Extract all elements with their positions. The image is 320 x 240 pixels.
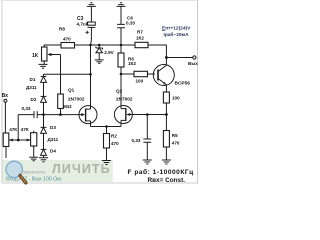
BCP56 base bar	[157, 70, 159, 81]
wire input cap to wiper junction	[17, 115, 19, 140]
wire M43 bottom	[60, 109, 62, 115]
ground under D4	[39, 158, 48, 162]
terminal Вх	[4, 99, 7, 102]
watermark band	[3, 160, 113, 182]
capacitor 0.33 feedback	[143, 115, 151, 161]
svg-text:2N7002: 2N7002	[116, 97, 133, 102]
svg-text:Q2: Q2	[116, 88, 123, 93]
pot 47K right arrow	[27, 139, 31, 142]
svg-text:Д311: Д311	[26, 85, 37, 90]
wire R6 top	[120, 45, 122, 53]
svg-text:R8: R8	[59, 27, 65, 32]
ground under cap	[143, 160, 152, 164]
svg-text:Д311: Д311	[48, 137, 59, 142]
diode D3	[41, 115, 47, 128]
node dot wiper junction	[17, 139, 20, 142]
BCP56 collector	[158, 58, 166, 72]
gate resistor M43 body	[58, 94, 64, 109]
ground under 1K pot	[39, 61, 48, 68]
svg-text:470: 470	[172, 140, 180, 145]
svg-text:470: 470	[111, 141, 119, 146]
svg-text:Вх: Вх	[2, 93, 9, 99]
node dot source R2	[105, 125, 108, 128]
svg-text:D3: D3	[50, 125, 56, 130]
ground under R5	[162, 160, 171, 164]
wire output node	[166, 57, 192, 59]
plus sign C3	[86, 31, 89, 34]
node dot left row drain	[89, 73, 92, 76]
resistor R2 body	[104, 134, 110, 149]
svg-text:Rвх= Const.: Rвх= Const.	[148, 177, 186, 184]
svg-text:Eпт+12(24)V: Eпт+12(24)V	[162, 26, 191, 32]
capacitor C3	[88, 6, 96, 45]
wire R6 bottom to node	[120, 67, 122, 74]
svg-text:47К: 47К	[21, 127, 29, 132]
ground under zener	[95, 60, 104, 64]
terminal Вых	[193, 56, 196, 59]
transistor Q1 2N7002 circle	[79, 106, 97, 124]
wire wiper to gate resistor	[60, 55, 62, 95]
svg-text:R2: R2	[111, 134, 117, 139]
pot right top stub	[33, 131, 35, 133]
wire node to R5	[165, 115, 167, 131]
node dot rail zener	[98, 44, 101, 47]
svg-text:Iраб~20мА: Iраб~20мА	[164, 31, 190, 38]
resistor R5 body	[163, 131, 169, 148]
watermark magnifier lens	[6, 161, 22, 177]
svg-text:0,33: 0,33	[22, 106, 31, 111]
pot left bottom lead	[5, 147, 7, 159]
diode D2	[41, 95, 47, 97]
diode D1	[41, 74, 47, 76]
resistor R6 body	[118, 53, 124, 67]
svg-text:М43: М43	[63, 104, 72, 109]
Q1 source	[86, 121, 91, 127]
wire R5 to ground	[165, 147, 167, 160]
pot right bottom lead	[33, 146, 35, 157]
node dot feedback R5	[165, 113, 168, 116]
wire base	[148, 73, 156, 75]
resistor R8 body	[61, 43, 75, 49]
wire left node row	[44, 73, 91, 75]
transistor Q2 2N7002 circle	[114, 106, 132, 124]
svg-text:R7: R7	[137, 29, 143, 34]
watermark magnifier handle	[20, 176, 26, 183]
wire D2-node	[43, 102, 45, 114]
Q2 channel bar	[125, 108, 127, 121]
Q1 channel bar	[85, 109, 87, 122]
svg-text:100: 100	[172, 96, 180, 101]
svg-text:R5: R5	[172, 133, 178, 138]
wire R2 top	[106, 127, 108, 134]
resistor 100 base body	[134, 71, 148, 76]
resistor R7 body	[135, 42, 148, 47]
ground under R2	[102, 161, 111, 165]
svg-text:1К2: 1К2	[136, 35, 144, 40]
svg-text:1К: 1К	[32, 53, 39, 59]
wire D1-D2	[43, 82, 45, 96]
svg-text:2N7002: 2N7002	[68, 97, 85, 102]
junction dots	[17, 44, 168, 142]
node dot output	[165, 56, 168, 59]
wire top rail	[44, 45, 166, 58]
node dot R6 bottom	[120, 73, 123, 76]
ground under right pot	[29, 157, 38, 160]
wire D3-D4	[43, 133, 45, 149]
BCP56 emitter	[158, 79, 166, 93]
transistor VT3 BCP56 circle	[153, 65, 174, 86]
wire source row	[91, 126, 122, 128]
wire R2 bottom	[106, 148, 108, 161]
pot 47K right body	[31, 133, 37, 146]
svg-text:1К2: 1К2	[128, 61, 136, 66]
svg-text:увеличить: увеличить	[23, 171, 46, 176]
node dot feedback cap	[146, 113, 149, 116]
pot 47K left body	[3, 133, 9, 147]
wire D4 ground	[43, 155, 45, 157]
resistor 100 emitter body	[163, 92, 169, 103]
node dot diode cap	[42, 113, 45, 116]
svg-text:47К: 47К	[9, 127, 17, 132]
pot 47K left arrow	[9, 139, 13, 142]
wire feedback row	[132, 114, 166, 116]
zener diode VD 2.9V	[98, 45, 100, 60]
underline E	[162, 30, 165, 32]
svg-text:Вых: Вых	[188, 61, 198, 66]
svg-text:0,33: 0,33	[126, 20, 135, 25]
wire input	[4, 102, 7, 133]
svg-text:470: 470	[63, 37, 71, 42]
svg-text:D1: D1	[30, 77, 36, 82]
diode D4	[41, 148, 47, 150]
svg-text:100: 100	[136, 78, 144, 83]
svg-text:D4: D4	[50, 149, 56, 154]
svg-text:4,7uF: 4,7uF	[77, 22, 89, 27]
svg-text:F раб: 1-10000КГц: F раб: 1-10000КГц	[128, 168, 194, 176]
wire emitter resistor to node	[165, 103, 167, 115]
Q2 gate arrow	[129, 114, 132, 116]
svg-text:0,33: 0,33	[132, 138, 141, 143]
Q2 drain	[121, 74, 126, 109]
svg-text:2.9V: 2.9V	[104, 50, 114, 55]
wire node74 to base resistor	[121, 73, 134, 75]
potentiometer 1K wiper wire	[50, 54, 61, 56]
svg-text:D2: D2	[31, 97, 37, 102]
node dot gate Q1	[59, 113, 62, 116]
node dot rail C6	[120, 44, 123, 47]
capacitor 0.33 input	[18, 111, 43, 118]
Q1 gate wire	[44, 114, 83, 116]
svg-text:Q1: Q1	[68, 88, 75, 93]
potentiometer 1K body	[42, 47, 48, 61]
node dot rail C3	[89, 44, 92, 47]
Q2 source	[121, 120, 126, 126]
svg-text:BCP56: BCP56	[175, 81, 191, 87]
svg-text:ЛИЧИТЬ: ЛИЧИТЬ	[52, 162, 111, 176]
ground above C3	[87, 3, 96, 7]
ground above C6	[117, 3, 126, 7]
capacitor C6	[117, 6, 125, 45]
Q1 drain	[86, 45, 91, 109]
wire wiper row	[9, 139, 31, 141]
